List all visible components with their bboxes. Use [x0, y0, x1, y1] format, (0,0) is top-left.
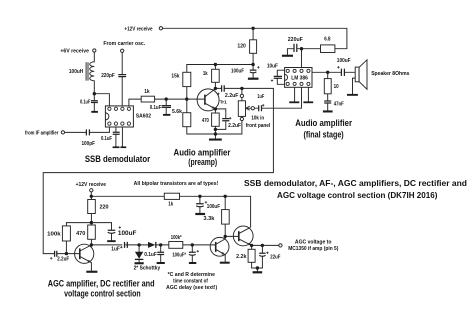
svg-text:AGC voltage control section (D: AGC voltage control section (DK7IH 2016) [277, 190, 438, 200]
svg-text:100uH: 100uH [69, 69, 84, 75]
svg-text:front panel: front panel [246, 123, 271, 129]
svg-text:120: 120 [237, 44, 246, 50]
svg-text:10: 10 [334, 84, 339, 90]
svg-text:SSB demodulator: SSB demodulator [85, 153, 151, 164]
svg-text:from IF amplifier: from IF amplifier [25, 130, 58, 136]
svg-text:100uF*: 100uF* [172, 252, 186, 258]
svg-text:2.2uF: 2.2uF [225, 93, 239, 99]
svg-text:6.8: 6.8 [324, 36, 330, 42]
svg-text:1uF: 1uF [257, 94, 264, 100]
svg-text:MC1350 if amp (pin 5): MC1350 if amp (pin 5) [288, 246, 339, 252]
svg-text:+12V receive: +12V receive [76, 182, 107, 188]
svg-text:10k in: 10k in [251, 116, 264, 122]
svg-text:1k: 1k [168, 202, 173, 208]
svg-text:22uF: 22uF [270, 254, 280, 260]
svg-text:(final stage): (final stage) [304, 128, 344, 139]
svg-text:2.2uF: 2.2uF [57, 256, 69, 262]
svg-text:100uF: 100uF [231, 69, 244, 75]
svg-text:220: 220 [100, 204, 109, 210]
svg-text:2* Schottky: 2* Schottky [134, 266, 161, 272]
svg-text:1k: 1k [203, 71, 208, 77]
svg-text:0.1uF: 0.1uF [80, 99, 90, 105]
svg-text:voltage control section: voltage control section [64, 288, 141, 299]
svg-text:15k: 15k [171, 73, 179, 79]
svg-text:AGC delay (see text!): AGC delay (see text!) [166, 285, 217, 291]
svg-text:0.1uF: 0.1uF [144, 252, 157, 258]
svg-text:Audio amplifier: Audio amplifier [295, 117, 352, 128]
svg-text:220uF: 220uF [288, 37, 303, 43]
svg-text:0.1uF: 0.1uF [101, 136, 112, 142]
svg-text:(preamp): (preamp) [188, 156, 217, 167]
svg-text:time constant of: time constant of [173, 279, 208, 285]
svg-text:100uF: 100uF [118, 230, 137, 237]
svg-text:All bipolar transistors are af: All bipolar transistors are af types! [134, 181, 219, 187]
svg-text:470: 470 [76, 231, 85, 237]
svg-text:470: 470 [202, 118, 209, 124]
svg-text:1k: 1k [144, 89, 149, 95]
svg-text:SSB demodulator, AF-, AGC ampl: SSB demodulator, AF-, AGC amplifiers, DC… [244, 178, 467, 188]
svg-text:+12V receive: +12V receive [124, 27, 152, 33]
svg-text:5.6k: 5.6k [172, 109, 182, 115]
svg-text:3.3k: 3.3k [203, 216, 214, 222]
svg-text:100k: 100k [47, 231, 61, 237]
svg-text:*C and R determine: *C and R determine [168, 272, 216, 278]
svg-text:2.2k: 2.2k [236, 254, 246, 260]
svg-text:0.1uF: 0.1uF [150, 105, 162, 111]
svg-text:+6V receive: +6V receive [60, 48, 89, 54]
svg-text:100uF: 100uF [207, 204, 220, 210]
svg-text:100pF: 100pF [81, 141, 95, 147]
svg-text:220pF: 220pF [101, 73, 115, 79]
svg-text:47nF: 47nF [334, 102, 344, 108]
svg-text:Tr1: Tr1 [220, 99, 227, 105]
svg-text:2.2uF: 2.2uF [228, 123, 241, 129]
svg-text:AGC voltage to: AGC voltage to [295, 239, 332, 245]
svg-text:From carrier osc.: From carrier osc. [103, 41, 145, 47]
svg-text:Speaker 8Ohms: Speaker 8Ohms [371, 71, 409, 77]
svg-text:100k*: 100k* [171, 235, 183, 241]
svg-text:10uF: 10uF [267, 64, 278, 70]
svg-text:SA602: SA602 [136, 113, 151, 119]
svg-text:LM 386: LM 386 [291, 75, 308, 81]
svg-text:100uF: 100uF [337, 58, 351, 64]
svg-text:1uF: 1uF [111, 247, 120, 253]
